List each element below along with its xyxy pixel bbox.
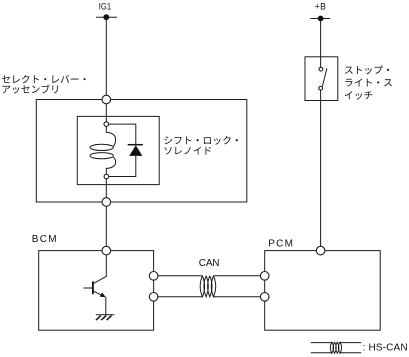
- CAN wire low BCM side: [154, 296, 203, 298]
- svg-text:BCM: BCM: [32, 234, 58, 245]
- label select lever assembly line 2: [2, 84, 57, 93]
- PCM box: [265, 251, 381, 331]
- svg-text:PCM: PCM: [268, 238, 294, 249]
- connector PCM top: [316, 246, 325, 255]
- transistor Q1: [83, 251, 106, 315]
- switch contact top: [319, 67, 323, 71]
- svg-text:+B: +B: [315, 1, 327, 12]
- CAN wire high PCM side: [214, 275, 265, 277]
- label stop light switch line 1: [345, 65, 389, 74]
- wire select bottom to BCM: [105, 202, 107, 251]
- terminal bar IG1: [96, 16, 117, 18]
- connector select top: [102, 95, 111, 104]
- switch blade: [322, 68, 327, 86]
- svg-text:IG1: IG1: [99, 0, 111, 11]
- switch contact bottom: [319, 86, 323, 90]
- legend twist symbol: [330, 342, 341, 354]
- CAN twisted pair: [200, 276, 216, 297]
- terminal bar +B: [311, 18, 331, 20]
- connector BCM right low: [149, 293, 158, 302]
- ground: [96, 315, 114, 320]
- junction dot IG1: [103, 14, 109, 20]
- label shift lock solenoid line 1: [164, 136, 238, 145]
- solenoid coil L1: [90, 126, 116, 174]
- wire stop light switch to PCM: [320, 90, 322, 250]
- connector select bottom: [102, 198, 111, 207]
- wire coil to select bottom: [105, 179, 107, 203]
- junction dot +B: [318, 16, 324, 22]
- wire select top to coil: [105, 100, 107, 125]
- label select lever assembly line 1: [2, 75, 86, 83]
- node bottom coil: [104, 174, 109, 179]
- stop light switch box: [305, 57, 338, 101]
- svg-text:: HS-CAN: : HS-CAN: [363, 342, 408, 353]
- label shift lock solenoid line 2: [165, 147, 212, 155]
- legend twisted pair wires: [311, 343, 362, 353]
- connector BCM top: [102, 246, 111, 255]
- CAN wire high BCM side: [154, 275, 203, 277]
- shift lock solenoid box: [77, 116, 159, 184]
- wire IG1 to select lever assembly: [105, 17, 107, 99]
- diode D1: [106, 124, 143, 176]
- CAN wire low PCM side: [214, 296, 265, 298]
- wire +B to stop light switch: [320, 19, 322, 68]
- BCM box: [39, 251, 154, 331]
- label stop light switch line 2: [345, 78, 392, 86]
- connector BCM right high: [149, 272, 158, 281]
- svg-text:CAN: CAN: [199, 258, 220, 269]
- connector PCM left low: [260, 293, 269, 302]
- select lever assembly box: [36, 100, 247, 203]
- node top coil: [104, 122, 109, 127]
- label stop light switch line 3: [345, 91, 373, 99]
- connector PCM left high: [260, 272, 269, 281]
